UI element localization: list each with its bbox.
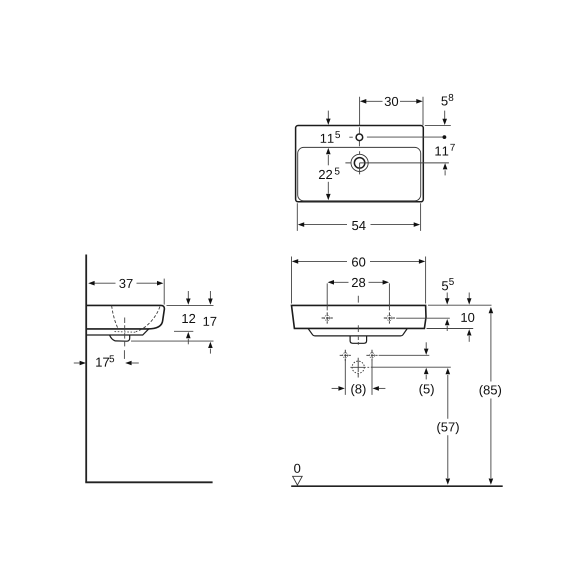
front drain boss	[350, 336, 367, 343]
dim 60 extension lines	[292, 257, 426, 304]
dim 11^5 arrow	[327, 111, 329, 119]
dim 30 extension lines	[360, 97, 423, 126]
faucet hole reference line to right	[367, 136, 443, 138]
dim 17 tick line	[131, 340, 214, 342]
dim 22^5 upper arrow	[326, 148, 331, 154]
side trap	[110, 335, 130, 341]
dim (57) lower arrow	[446, 479, 451, 485]
dim 37 extension line	[163, 279, 165, 305]
front apron	[308, 329, 407, 336]
dim 28 line	[334, 281, 384, 283]
dim 22^5 lower arrow	[327, 182, 329, 194]
drain outer circle	[351, 154, 368, 171]
drain crosshair horizontal	[345, 162, 449, 164]
dim 5^8 tick line	[425, 124, 451, 126]
dim (57) label	[437, 422, 459, 434]
right hole reference line	[396, 317, 450, 319]
side hidden bottom dotted	[115, 331, 136, 334]
dim (8) extension lines	[345, 359, 372, 395]
side bowl hidden line right	[136, 307, 160, 332]
dim 28 label	[352, 278, 365, 287]
right fixing hole	[384, 312, 395, 323]
dim 11^7 label	[435, 147, 448, 156]
datum 0 label	[294, 464, 300, 473]
top view inner bowl	[298, 147, 421, 201]
drain inner circle	[354, 158, 365, 169]
dim 17 lower arrow	[208, 342, 213, 348]
dim 5^8 label	[441, 96, 447, 105]
dim 54 line	[304, 224, 415, 226]
drain reference line	[371, 366, 451, 368]
dim 10 label	[461, 313, 474, 322]
faucet hole	[356, 134, 363, 141]
dim 17^5 left arrow	[74, 362, 80, 364]
dim 37 label	[119, 279, 132, 288]
side profile body	[87, 305, 164, 329]
dim 54 label	[352, 221, 366, 230]
front centerline dashes	[357, 296, 359, 345]
dim 12 upper arrow	[187, 291, 189, 299]
faucet hole crosshair vertical dashes	[358, 127, 360, 146]
dim (57) upper arrow	[446, 368, 451, 374]
dim (8) label	[351, 384, 365, 396]
dim 17^5 right arrow	[125, 361, 131, 366]
floor line	[291, 485, 503, 487]
drain crosshair vertical	[359, 151, 361, 174]
side apron bottom	[87, 329, 149, 335]
dim 5^5 upper arrow	[446, 293, 448, 299]
dim 30 line	[366, 100, 417, 102]
dim (5) label	[419, 384, 433, 396]
left fixing hole	[322, 312, 333, 323]
dim 5^5 lower arrow	[445, 319, 450, 325]
dim 12 lower arrow	[186, 332, 191, 338]
dim 11^7 arrow	[443, 163, 448, 169]
dim (85) label	[480, 385, 502, 397]
supply hole right	[366, 350, 377, 361]
dim 17 label	[204, 317, 217, 326]
dim 10 lower arrow	[467, 329, 472, 335]
top edge extension line	[167, 304, 214, 306]
dim 30 label	[385, 97, 398, 106]
faucet hole crosshair left tick	[349, 136, 353, 138]
drain crosshair	[350, 366, 369, 368]
dim 10 tick line	[427, 328, 474, 330]
side bowl hidden line left	[112, 306, 119, 329]
dim 37 line	[94, 282, 158, 284]
dim 5^8 arrow	[444, 111, 446, 119]
reference dot	[443, 135, 447, 139]
dim (85) lower arrow	[489, 479, 494, 485]
wall floor stub	[85, 481, 212, 483]
supply hole left	[340, 350, 351, 361]
dim 22^5 label	[319, 170, 332, 179]
dim 11^5 label	[321, 134, 334, 143]
dim 12 tick line	[174, 330, 193, 332]
dim 54 arrows	[298, 222, 420, 227]
dim 54 extension lines	[297, 203, 420, 231]
dim 30 arrows	[360, 99, 423, 104]
dim 17 upper arrow	[209, 291, 211, 299]
dim 10 upper arrow	[468, 293, 470, 299]
datum triangle	[293, 476, 303, 485]
dim 17^5 label	[96, 358, 109, 367]
top view outer rim	[296, 126, 424, 202]
side drain centerline	[124, 318, 126, 349]
dim (57) line	[447, 375, 449, 478]
dim (5) lower arrow	[424, 368, 429, 374]
drain circle dashed	[352, 361, 364, 373]
dim 60 arrows	[292, 259, 426, 264]
dim 37 arrows	[88, 281, 163, 286]
top reference line right	[428, 304, 492, 306]
dim 60 line	[298, 260, 419, 262]
supply holes reference line	[379, 354, 430, 356]
dim 12 label	[182, 314, 195, 323]
dim 5^5 label	[442, 281, 448, 290]
dim 28 extension lines	[327, 283, 389, 310]
dim (8) left arrow	[332, 387, 339, 389]
dim (85) upper arrow	[489, 307, 494, 313]
dim 28 arrows	[328, 280, 389, 285]
wall line	[85, 255, 87, 483]
dim (8) right arrow	[373, 386, 379, 391]
dim (5) upper arrow	[425, 342, 427, 348]
front outline	[292, 305, 427, 328]
dim 60 label	[352, 257, 365, 266]
dim (85) line	[490, 313, 492, 478]
